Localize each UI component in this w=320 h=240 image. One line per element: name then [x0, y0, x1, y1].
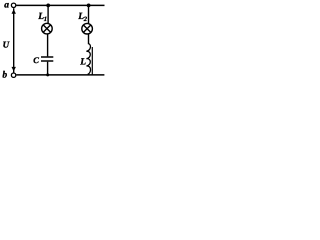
inductor L coil	[86, 44, 90, 75]
wire L1 to C	[47, 34, 49, 56]
wire U voltage line	[13, 8, 15, 72]
svg-text:C: C	[33, 55, 39, 65]
svg-text:b: b	[2, 71, 7, 81]
junction node at L2 branch top	[87, 4, 91, 8]
lamp L1	[42, 23, 53, 34]
capacitor C plates	[41, 56, 53, 58]
terminal a	[11, 3, 15, 7]
arrowhead up near a	[12, 9, 16, 14]
junction node at L1 branch top	[46, 4, 50, 8]
wire C to bottom	[47, 62, 49, 75]
svg-text:a: a	[4, 1, 9, 11]
arrowhead down near b	[12, 67, 16, 72]
svg-text:L: L	[79, 58, 86, 68]
wire L2 to coil	[88, 34, 90, 44]
lamp L2	[82, 23, 93, 34]
wire branch L2 top	[88, 5, 90, 23]
terminal b	[11, 73, 15, 77]
inductor core line	[91, 47, 93, 75]
svg-text:U: U	[3, 39, 10, 49]
wire top bus	[16, 4, 104, 6]
wire bottom bus	[16, 74, 104, 76]
wire branch L1 top	[47, 5, 49, 23]
junction node at C branch bottom	[46, 73, 49, 76]
